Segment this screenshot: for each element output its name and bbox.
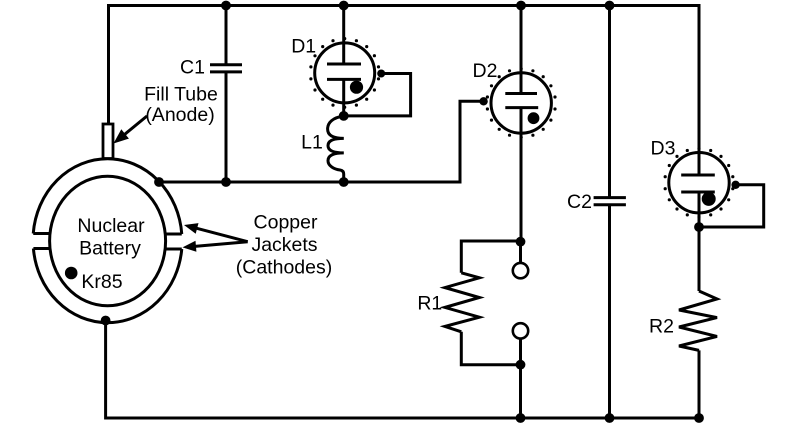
svg-text:C2: C2 (567, 191, 592, 213)
svg-text:R2: R2 (649, 315, 674, 337)
svg-text:C1: C1 (180, 57, 205, 79)
svg-text:Copper: Copper (254, 212, 318, 234)
svg-text:Battery: Battery (79, 238, 141, 260)
svg-text:(Cathodes): (Cathodes) (236, 257, 332, 279)
svg-text:D2: D2 (473, 60, 498, 82)
svg-text:Fill Tube: Fill Tube (144, 84, 218, 106)
svg-text:(Anode): (Anode) (145, 104, 214, 126)
svg-text:Nuclear: Nuclear (77, 215, 145, 237)
svg-text:R1: R1 (417, 293, 442, 315)
svg-text:Kr85: Kr85 (81, 271, 122, 293)
svg-text:Jackets: Jackets (251, 234, 317, 256)
svg-text:L1: L1 (301, 132, 323, 154)
svg-text:D1: D1 (291, 36, 316, 58)
svg-text:D3: D3 (651, 137, 676, 159)
